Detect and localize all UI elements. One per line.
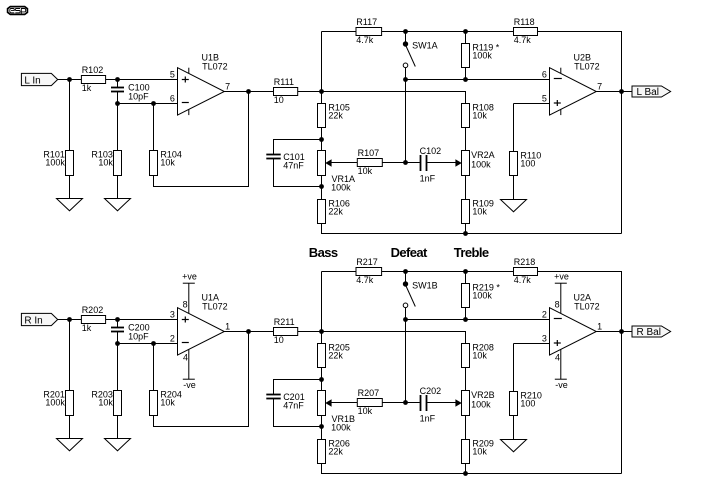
- wire top rail middle: [382, 31, 514, 33]
- capacitor C102 1nF: [420, 146, 442, 183]
- svg-text:100: 100: [520, 399, 535, 409]
- svg-text:-ve: -ve: [555, 380, 568, 390]
- ground under R210: [501, 440, 527, 452]
- wire input shunt: [69, 320, 71, 391]
- junction C201 top: [319, 377, 324, 382]
- svg-text:SW1A: SW1A: [412, 41, 438, 51]
- wire C100 bottom stem: [117, 92, 119, 104]
- resistor R110 100: [510, 151, 542, 176]
- wire left column riser: [321, 32, 323, 92]
- junction rail-switch: [403, 29, 408, 34]
- svg-text:100k: 100k: [45, 398, 65, 408]
- wire R219 top: [465, 272, 467, 284]
- wire defeat column: [405, 320, 407, 403]
- ESP logo: [8, 7, 28, 15]
- wire C100 top stem: [117, 80, 119, 88]
- wire R205 top: [321, 332, 323, 344]
- wire C201 branch top: [274, 380, 322, 395]
- wire feedback R104 to output: [154, 92, 249, 187]
- switch SW1A: [403, 32, 438, 80]
- svg-text:L Bal: L Bal: [637, 87, 659, 98]
- svg-text:TL072: TL072: [202, 302, 228, 312]
- junction switch bottom: [403, 317, 408, 322]
- svg-text:10pF: 10pF: [128, 92, 149, 102]
- wire defeat row to op-amp: [406, 79, 550, 81]
- wire R105 top: [321, 92, 323, 104]
- svg-text:5: 5: [542, 94, 547, 104]
- wire VR1A bottom: [321, 176, 323, 200]
- wire R101 to ground: [69, 176, 71, 199]
- wire R119 top: [465, 32, 467, 44]
- output tag L Bal: [632, 86, 671, 98]
- junction defeat-C102: [403, 160, 408, 165]
- op-amp U1A: [170, 272, 230, 391]
- wire C201 branch bottom: [274, 399, 322, 427]
- wire R207 to defeat node: [382, 402, 405, 404]
- wire R205 to VR1B: [321, 368, 323, 391]
- svg-text:R117: R117: [356, 17, 377, 27]
- svg-text:TL072: TL072: [574, 62, 600, 72]
- wire VR2B to R209: [465, 416, 467, 440]
- wire R102 to op-amp +in: [106, 79, 178, 81]
- wire op-amp2 output: [596, 91, 632, 93]
- wire inverting input row: [118, 103, 178, 105]
- wire R208 to VR2B: [465, 368, 467, 391]
- junction feedback node: [151, 101, 156, 106]
- op-amp U1B: [170, 53, 230, 116]
- wire R110 to ground: [513, 176, 515, 200]
- wire R107 to defeat node: [382, 162, 405, 164]
- resistor R211 10: [274, 317, 298, 345]
- wire VR1B bottom: [321, 416, 323, 440]
- wire left column riser: [321, 272, 323, 332]
- svg-text:10k: 10k: [358, 166, 373, 176]
- svg-text:100: 100: [520, 159, 535, 169]
- svg-text:R218: R218: [514, 257, 536, 267]
- svg-text:100k: 100k: [331, 183, 351, 193]
- svg-text:47nF: 47nF: [283, 401, 304, 411]
- svg-text:6: 6: [170, 94, 175, 104]
- svg-text:5: 5: [170, 69, 175, 79]
- capacitor C201 47nF: [266, 392, 304, 410]
- wire op-amp2 +in: [514, 103, 550, 105]
- svg-text:2: 2: [542, 309, 547, 319]
- svg-text:7: 7: [225, 81, 230, 91]
- svg-text:R118: R118: [514, 17, 535, 27]
- junction defeat-C202: [403, 400, 408, 405]
- svg-text:SW1B: SW1B: [412, 281, 438, 291]
- svg-text:10: 10: [274, 95, 284, 105]
- wire C200 top stem: [117, 320, 119, 328]
- wire op-amp output to R211: [224, 331, 273, 333]
- svg-text:Treble: Treble: [454, 245, 489, 260]
- resistor R210 100: [510, 391, 542, 416]
- svg-text:3: 3: [542, 334, 547, 344]
- junction tone network left: [319, 329, 324, 334]
- svg-text:1: 1: [597, 321, 602, 331]
- input tag R In: [21, 313, 57, 326]
- svg-text:R102: R102: [82, 65, 104, 75]
- svg-text:R211: R211: [274, 317, 295, 327]
- svg-text:7: 7: [597, 81, 602, 91]
- resistor R203 10k: [91, 390, 121, 416]
- wire op-amp output to R111: [224, 91, 273, 93]
- svg-text:8: 8: [183, 300, 188, 310]
- svg-text:100k: 100k: [331, 423, 351, 433]
- svg-text:4.7k: 4.7k: [514, 275, 532, 285]
- wire R206 to bottom rail: [322, 464, 622, 474]
- resistor R219 100k: [462, 283, 501, 308]
- svg-text:10pF: 10pF: [128, 332, 149, 342]
- ground under R101: [57, 199, 83, 211]
- junction R119 bottom: [463, 77, 468, 82]
- svg-text:2: 2: [170, 334, 175, 344]
- svg-text:10k: 10k: [160, 158, 175, 168]
- resistor R108 10k: [462, 103, 494, 128]
- wire C101 branch bottom: [274, 159, 322, 187]
- wire C101 branch top: [274, 140, 322, 155]
- junction output feedback: [619, 89, 624, 94]
- wire R119 bottom: [465, 68, 467, 80]
- svg-text:R207: R207: [358, 388, 380, 398]
- capacitor C202 1nF: [420, 386, 442, 423]
- potentiometer VR2A 100k treble: [455, 150, 494, 176]
- svg-text:22k: 22k: [328, 447, 343, 457]
- svg-text:R Bal: R Bal: [637, 327, 661, 338]
- wire R202 to op-amp +in: [106, 319, 178, 321]
- resistor R117 4.7k: [356, 17, 382, 45]
- junction input node: [67, 317, 72, 322]
- wire R108 to VR2A: [465, 128, 467, 151]
- svg-text:22k: 22k: [328, 207, 343, 217]
- svg-text:10k: 10k: [358, 406, 373, 416]
- wire defeat node to C202: [406, 402, 420, 404]
- resistor R207 10k: [357, 388, 382, 416]
- svg-text:R111: R111: [274, 77, 294, 87]
- junction bottom rail: [463, 471, 468, 476]
- resistor R118 4.7k: [514, 17, 538, 45]
- resistor R105 22k: [318, 103, 350, 128]
- resistor R218 4.7k: [514, 257, 538, 285]
- junction C201 bottom: [319, 424, 324, 429]
- wire op-amp2 output: [596, 331, 632, 333]
- junction bottom rail: [463, 231, 468, 236]
- svg-text:100k: 100k: [471, 399, 491, 409]
- junction output feedback: [619, 329, 624, 334]
- resistor R106 22k: [318, 199, 350, 224]
- svg-text:+ve: +ve: [182, 272, 197, 282]
- junction output node: [246, 89, 251, 94]
- svg-text:22k: 22k: [328, 351, 343, 361]
- wire R103 to ground: [117, 176, 119, 199]
- wire R204 top: [153, 344, 155, 391]
- wire R201 to ground: [69, 416, 71, 439]
- ground under R203: [105, 439, 131, 451]
- junction C101 bottom: [319, 184, 324, 189]
- switch SW1B: [403, 272, 438, 320]
- svg-text:10k: 10k: [98, 398, 113, 408]
- resistor R206 22k: [318, 439, 350, 464]
- resistor R202 1k: [81, 305, 105, 333]
- resistor R109 10k: [462, 199, 494, 224]
- junction rail-R219: [463, 269, 468, 274]
- svg-text:C102: C102: [420, 146, 442, 156]
- svg-text:1k: 1k: [82, 83, 92, 93]
- resistor R217 4.7k: [356, 257, 382, 285]
- wire input shunt: [69, 80, 71, 151]
- wire VR2A to R109: [465, 176, 467, 200]
- resistor R201 100k: [43, 390, 73, 416]
- svg-text:R107: R107: [358, 148, 380, 158]
- wire R209 to bottom rail: [465, 464, 467, 474]
- svg-text:4: 4: [183, 353, 188, 363]
- ground under R201: [57, 439, 83, 451]
- wire C102 to VR2A wiper: [427, 162, 455, 164]
- junction switch bottom: [403, 77, 408, 82]
- svg-text:R202: R202: [82, 305, 104, 315]
- svg-text:8: 8: [555, 300, 560, 310]
- junction tone network left: [319, 89, 324, 94]
- wire defeat node to C102: [406, 162, 420, 164]
- svg-text:Defeat: Defeat: [391, 245, 428, 260]
- svg-text:TL072: TL072: [202, 62, 228, 72]
- resistor R209 10k: [462, 439, 494, 464]
- junction rail-R119: [463, 29, 468, 34]
- wire R210 top: [513, 344, 515, 392]
- capacitor C200 10pF: [111, 323, 150, 342]
- wire R105 to VR1A: [321, 128, 323, 151]
- input tag L In: [21, 73, 57, 86]
- svg-text:R In: R In: [24, 315, 42, 326]
- wire R203 to ground: [117, 416, 119, 439]
- svg-text:10: 10: [274, 335, 284, 345]
- potentiometer VR2B 100k treble: [455, 390, 494, 416]
- junction input node: [67, 77, 72, 82]
- wire top rail right: [538, 272, 622, 474]
- wire top rail left: [322, 271, 357, 273]
- wire R210 to ground: [513, 416, 515, 440]
- wire C202 to VR2B wiper: [427, 402, 455, 404]
- wire feedback R204 to output: [154, 332, 249, 427]
- wire defeat column: [405, 80, 407, 163]
- wire input to R202: [58, 319, 82, 321]
- svg-text:1nF: 1nF: [420, 413, 436, 423]
- potentiometer VR1A 100k bass: [318, 151, 356, 193]
- resistor R119 100k: [462, 43, 500, 68]
- junction feedback node: [151, 341, 156, 346]
- capacitor C101 47nF: [266, 152, 304, 170]
- wire R103 top: [117, 104, 119, 151]
- wire R207 to VR1B wiper: [331, 402, 357, 404]
- svg-text:10k: 10k: [160, 398, 175, 408]
- junction C101 top: [319, 137, 324, 142]
- svg-text:4.7k: 4.7k: [356, 275, 374, 285]
- svg-text:+ve: +ve: [554, 272, 569, 282]
- svg-text:4: 4: [555, 353, 560, 363]
- wire top rail left: [322, 31, 357, 33]
- wire R104 top: [153, 104, 155, 151]
- resistor R204 10k: [150, 390, 182, 416]
- op-amp U2B: [542, 53, 602, 116]
- svg-text:VR2A: VR2A: [471, 150, 495, 160]
- resistor R205 22k: [318, 343, 350, 368]
- wire R110 top: [513, 104, 515, 152]
- svg-text:TL072: TL072: [574, 302, 600, 312]
- junction rail-switch: [403, 269, 408, 274]
- wire defeat row to op-amp: [406, 319, 550, 321]
- resistor R208 10k: [462, 343, 494, 368]
- svg-text:10k: 10k: [98, 158, 113, 168]
- svg-text:4.7k: 4.7k: [356, 35, 374, 45]
- resistor R107 10k: [357, 148, 382, 176]
- ground under R110: [501, 200, 527, 212]
- svg-text:R217: R217: [356, 257, 378, 267]
- svg-text:1nF: 1nF: [420, 173, 436, 183]
- resistor R104 10k: [150, 150, 182, 176]
- potentiometer VR1B 100k bass: [318, 391, 356, 433]
- wire input to R102: [58, 79, 82, 81]
- junction output node: [246, 329, 251, 334]
- junction C200 bottom: [115, 341, 120, 346]
- wire R203 top: [117, 344, 119, 391]
- wire R111 to treble column: [298, 92, 466, 104]
- svg-text:10k: 10k: [472, 351, 487, 361]
- svg-text:22k: 22k: [328, 111, 343, 121]
- svg-text:Bass: Bass: [309, 245, 338, 260]
- svg-text:C202: C202: [420, 386, 442, 396]
- resistor R103 10k: [91, 150, 121, 176]
- svg-text:1: 1: [225, 321, 230, 331]
- wire op-amp2 +in: [514, 343, 550, 345]
- svg-text:1k: 1k: [82, 323, 92, 333]
- svg-text:100k: 100k: [472, 291, 492, 301]
- wire top rail right: [538, 32, 622, 234]
- svg-text:3: 3: [170, 309, 175, 319]
- junction R219 bottom: [463, 317, 468, 322]
- svg-text:47nF: 47nF: [283, 161, 304, 171]
- svg-text:4.7k: 4.7k: [514, 35, 532, 45]
- output tag R Bal: [632, 326, 671, 338]
- wire inverting input row: [118, 343, 178, 345]
- wire R109 to bottom rail: [465, 224, 467, 234]
- svg-text:100k: 100k: [472, 51, 492, 61]
- svg-text:100k: 100k: [45, 158, 65, 168]
- svg-text:-ve: -ve: [183, 380, 196, 390]
- wire top rail middle: [382, 271, 514, 273]
- wire C200 bottom stem: [117, 332, 119, 344]
- junction node at C200 top: [115, 317, 120, 322]
- svg-text:VR2B: VR2B: [471, 390, 495, 400]
- wire R106 to bottom rail: [322, 224, 622, 234]
- resistor R111 10: [274, 77, 298, 105]
- ground under R103: [105, 199, 131, 211]
- resistor R101 100k: [43, 150, 73, 176]
- wire R219 bottom: [465, 308, 467, 320]
- svg-text:10k: 10k: [472, 207, 487, 217]
- svg-text:100k: 100k: [471, 159, 491, 169]
- junction node at C100 top: [115, 77, 120, 82]
- svg-text:10k: 10k: [472, 111, 487, 121]
- wire R107 to VR1A wiper: [331, 162, 357, 164]
- junction C100 bottom: [115, 101, 120, 106]
- op-amp U2A: [542, 272, 602, 391]
- svg-text:L In: L In: [24, 75, 40, 86]
- capacitor C100 10pF: [111, 83, 150, 102]
- svg-text:10k: 10k: [472, 447, 487, 457]
- svg-text:6: 6: [542, 69, 547, 79]
- wire R211 to treble column: [298, 332, 466, 344]
- resistor R102 1k: [81, 65, 105, 93]
